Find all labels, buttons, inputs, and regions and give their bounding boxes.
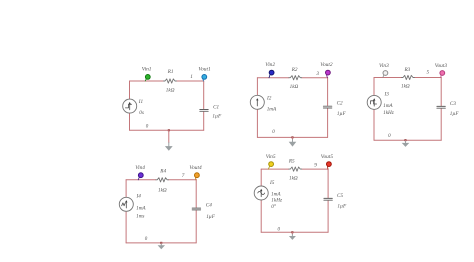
wire: left vertical lower (circuit 3) bbox=[373, 109, 375, 140]
probe Vin1 bbox=[145, 75, 150, 82]
svg-text:I2: I2 bbox=[266, 95, 272, 101]
svg-text:R4: R4 bbox=[159, 167, 166, 174]
wire: right vertical upper (circuit 5) bbox=[327, 169, 329, 198]
wire: left vertical upper (circuit 4) bbox=[125, 180, 127, 198]
svg-text:C1: C1 bbox=[213, 105, 219, 111]
svg-text:1kΩ: 1kΩ bbox=[158, 188, 167, 194]
svg-text:7: 7 bbox=[182, 173, 185, 179]
wire: top segment right of R4 (circuit 4) bbox=[169, 179, 197, 181]
capacitor C3 bbox=[437, 106, 445, 108]
wire: top segment left of R2 (circuit 2) bbox=[257, 77, 289, 79]
svg-text:R2: R2 bbox=[291, 67, 298, 73]
wire: left vertical lower (circuit 4) bbox=[125, 211, 127, 243]
wire: right vertical lower (circuit 3) bbox=[440, 109, 442, 140]
svg-text:C2: C2 bbox=[337, 101, 343, 107]
svg-text:1mA: 1mA bbox=[136, 206, 146, 212]
wire: right vertical upper (circuit 4) bbox=[195, 180, 197, 208]
ground symbol (circuit 3) bbox=[402, 140, 410, 147]
svg-text:1ms: 1ms bbox=[136, 214, 144, 220]
ground symbol (circuit 5) bbox=[289, 232, 296, 240]
wire: left vertical upper (circuit 2) bbox=[256, 78, 258, 96]
wire: left vertical upper (circuit 1) bbox=[129, 81, 131, 99]
capacitor C1 bbox=[200, 110, 208, 112]
svg-text:1µF: 1µF bbox=[212, 114, 222, 120]
probe Vin4 bbox=[138, 173, 143, 180]
svg-text:1mA: 1mA bbox=[267, 106, 277, 112]
wire: top segment right of R1 (circuit 1) bbox=[176, 80, 203, 82]
wire: top segment right of R5 (circuit 5) bbox=[302, 168, 329, 170]
resistor R4 bbox=[156, 178, 169, 182]
svg-text:1kΩ: 1kΩ bbox=[289, 176, 298, 182]
svg-text:Vout5: Vout5 bbox=[321, 154, 334, 160]
wire: right vertical lower (circuit 1) bbox=[203, 112, 205, 130]
svg-text:Vin3: Vin3 bbox=[379, 63, 389, 69]
wire: right vertical lower (circuit 2) bbox=[327, 109, 329, 138]
probe Vin3 bbox=[383, 71, 388, 78]
svg-text:Vout4: Vout4 bbox=[189, 165, 202, 171]
wire: right vertical upper (circuit 3) bbox=[440, 78, 442, 106]
svg-text:1kHz: 1kHz bbox=[271, 197, 282, 203]
svg-text:I3: I3 bbox=[384, 92, 390, 98]
junction on bottom wire at ground (circuit 3) bbox=[404, 139, 406, 141]
svg-text:C5: C5 bbox=[337, 193, 343, 199]
capacitor C4 bbox=[192, 208, 200, 210]
svg-text:Vin5: Vin5 bbox=[266, 154, 276, 160]
svg-text:9: 9 bbox=[314, 163, 317, 169]
wire: top segment left of R1 (circuit 1) bbox=[130, 80, 164, 82]
svg-text:Vout3: Vout3 bbox=[435, 63, 448, 69]
junction on bottom wire at ground (circuit 4) bbox=[160, 242, 162, 244]
probe Vin2 bbox=[269, 70, 274, 78]
probe Vout2 bbox=[326, 70, 331, 78]
current source I2 bbox=[250, 95, 264, 109]
current source I5 bbox=[254, 186, 268, 200]
svg-text:Vin4: Vin4 bbox=[135, 165, 145, 171]
svg-text:1kΩ: 1kΩ bbox=[290, 84, 299, 90]
wire: top segment right of R3 (circuit 3) bbox=[414, 77, 441, 79]
current source I4 bbox=[119, 197, 133, 211]
svg-text:C3: C3 bbox=[450, 101, 456, 107]
wire: right vertical lower (circuit 4) bbox=[195, 211, 197, 243]
svg-text:I1: I1 bbox=[138, 99, 144, 105]
svg-text:0s: 0s bbox=[139, 110, 144, 116]
ground symbol (circuit 1) bbox=[165, 130, 173, 151]
probe Vout3 bbox=[440, 71, 445, 78]
svg-text:1µF: 1µF bbox=[450, 111, 460, 117]
junction on bottom wire at ground (circuit 1) bbox=[168, 129, 170, 131]
ground symbol (circuit 2) bbox=[289, 137, 297, 146]
svg-text:1µF: 1µF bbox=[337, 111, 347, 117]
capacitor C2 bbox=[323, 106, 331, 108]
wire: bottom segment (circuit 3) bbox=[374, 139, 441, 141]
wire: top segment left of R4 (circuit 4) bbox=[126, 179, 156, 181]
probe Vout5 bbox=[327, 162, 332, 169]
wire: bottom segment (circuit 2) bbox=[257, 136, 327, 138]
svg-text:Vin2: Vin2 bbox=[265, 62, 275, 68]
probe Vin5 bbox=[269, 162, 274, 169]
svg-text:Vout1: Vout1 bbox=[198, 67, 211, 73]
current source I1 bbox=[123, 99, 137, 113]
wire: left vertical lower (circuit 2) bbox=[256, 109, 258, 137]
svg-text:I4: I4 bbox=[136, 193, 142, 200]
probe Vout4 bbox=[195, 173, 200, 180]
resistor R2 bbox=[289, 76, 302, 80]
capacitor C5 bbox=[324, 198, 332, 200]
wire: left vertical lower (circuit 1) bbox=[129, 113, 131, 130]
wire: right vertical upper (circuit 1) bbox=[203, 81, 205, 109]
probe Vout1 bbox=[202, 75, 207, 82]
wire: left vertical lower (circuit 5) bbox=[260, 200, 262, 232]
svg-text:0°: 0° bbox=[271, 203, 276, 210]
resistor R1 bbox=[164, 79, 177, 83]
wire: bottom segment (circuit 4) bbox=[126, 242, 196, 244]
wire: top segment right of R2 (circuit 2) bbox=[302, 77, 328, 79]
wire: left vertical upper (circuit 5) bbox=[260, 169, 262, 186]
svg-text:R1: R1 bbox=[167, 69, 174, 75]
junction on bottom wire at ground (circuit 5) bbox=[291, 231, 293, 233]
svg-text:1µF: 1µF bbox=[206, 214, 216, 220]
svg-text:Vout2: Vout2 bbox=[320, 62, 333, 68]
ground symbol (circuit 4) bbox=[158, 243, 165, 249]
svg-text:1kΩ: 1kΩ bbox=[401, 83, 410, 89]
wire: right vertical lower (circuit 5) bbox=[327, 201, 329, 232]
svg-text:1µF: 1µF bbox=[337, 204, 347, 210]
wire: right vertical upper (circuit 2) bbox=[327, 78, 329, 106]
svg-text:1kΩ: 1kΩ bbox=[166, 88, 175, 94]
svg-text:Vin1: Vin1 bbox=[142, 67, 152, 73]
svg-text:R3: R3 bbox=[404, 67, 411, 73]
wire: bottom segment (circuit 1) bbox=[130, 129, 204, 131]
wire: top segment left of R5 (circuit 5) bbox=[261, 168, 289, 170]
svg-text:5: 5 bbox=[427, 69, 430, 75]
wire: top segment left of R3 (circuit 3) bbox=[374, 77, 402, 79]
svg-text:I5: I5 bbox=[269, 180, 275, 186]
current source I3 bbox=[367, 95, 381, 109]
svg-text:1mA: 1mA bbox=[383, 103, 393, 109]
svg-text:C4: C4 bbox=[206, 202, 212, 209]
wire: left vertical upper (circuit 3) bbox=[373, 78, 375, 96]
resistor R3 bbox=[402, 75, 415, 79]
resistor R5 bbox=[289, 167, 302, 171]
junction on bottom wire at ground (circuit 2) bbox=[291, 136, 293, 138]
svg-text:1kHz: 1kHz bbox=[383, 110, 394, 116]
svg-text:1: 1 bbox=[190, 74, 193, 80]
svg-text:R5: R5 bbox=[288, 158, 295, 164]
wire: bottom segment (circuit 5) bbox=[261, 231, 328, 233]
svg-text:3: 3 bbox=[316, 71, 319, 77]
